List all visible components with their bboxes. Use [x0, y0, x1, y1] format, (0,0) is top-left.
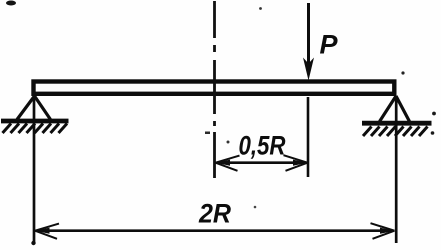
speck left of 0,5R text: [227, 141, 230, 144]
0,5R left arrowhead: [216, 156, 240, 171]
stray dot below right ground: [431, 131, 435, 135]
dimension line 2R: [40, 229, 390, 232]
force P arrow shaft: [307, 3, 310, 66]
centre line (dash-dot axis): [213, 1, 216, 178]
right support ground bar: [362, 121, 432, 126]
extension line below force (for 0,5R dimension): [307, 97, 310, 177]
2R right arrowhead: [371, 223, 395, 239]
dot at bottom of left extension: [31, 241, 35, 245]
right support hatching: [363, 127, 428, 137]
dimension line 0,5R: [221, 161, 303, 164]
svg-text:2R: 2R: [198, 199, 231, 229]
stray dot near P: [259, 7, 262, 10]
svg-text:P: P: [320, 30, 339, 60]
speck left of centre line: [205, 132, 210, 135]
right extension line to 2R dimension: [395, 97, 398, 243]
left extension line to 2R dimension: [33, 97, 36, 243]
left support ground bar: [1, 119, 69, 124]
beam (simply supported beam body): [34, 82, 395, 94]
force P arrowhead: [303, 58, 314, 81]
stray dot above right support: [401, 71, 404, 74]
left support triangle: [17, 96, 51, 120]
stray ink blob top-left: [6, 1, 16, 6]
left support hatching: [3, 124, 68, 134]
stray dot near 2R text: [254, 206, 257, 209]
right support triangle: [380, 96, 410, 122]
svg-text:0,5R: 0,5R: [239, 131, 286, 161]
stray dot right of right ground: [432, 112, 436, 116]
2R left arrowhead: [35, 224, 59, 239]
0,5R right arrowhead: [284, 155, 308, 171]
